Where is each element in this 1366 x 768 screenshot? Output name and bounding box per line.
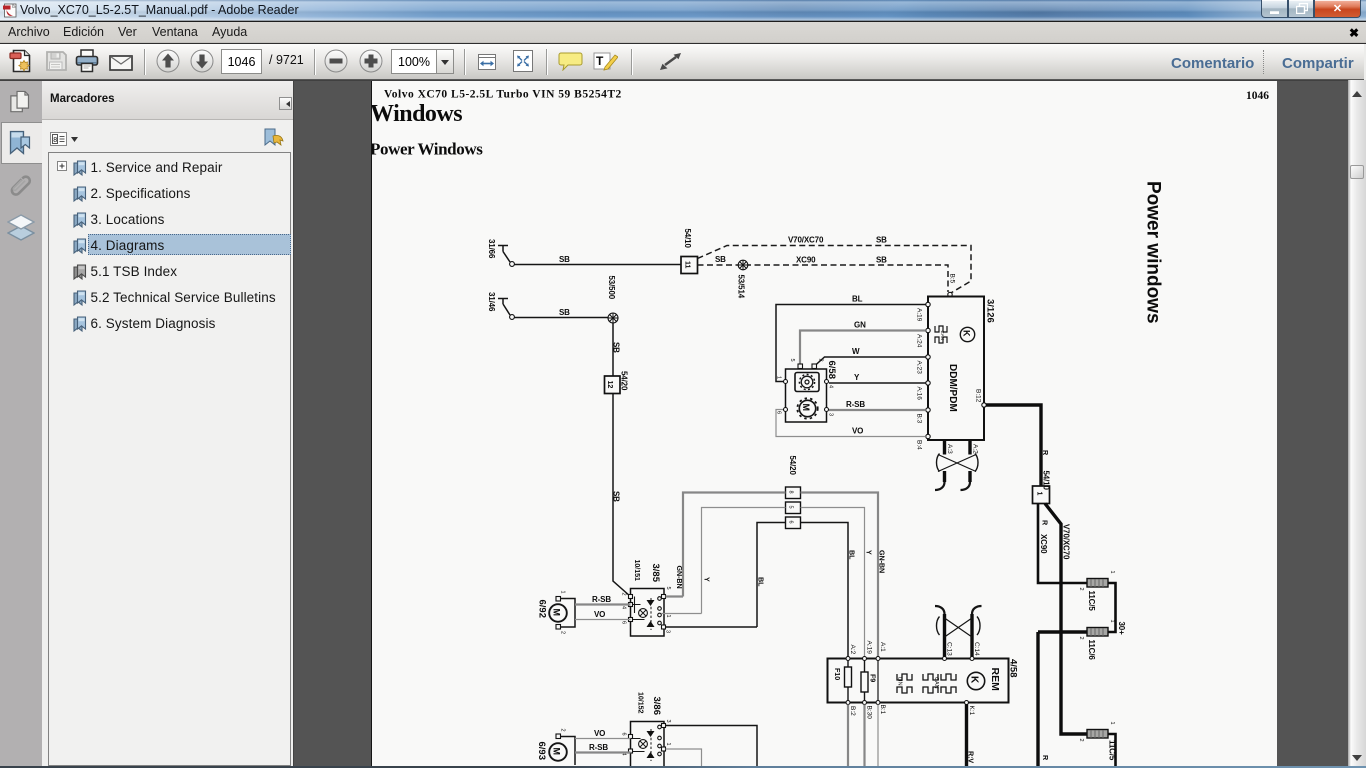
svg-text:B:5: B:5: [949, 274, 956, 284]
svg-text:BL: BL: [757, 577, 766, 587]
svg-text:C:13: C:13: [946, 642, 953, 656]
svg-text:R: R: [1041, 755, 1050, 761]
svg-text:11C/5: 11C/5: [1108, 740, 1117, 761]
svg-text:Power windows: Power windows: [1143, 181, 1164, 324]
svg-text:K: K: [962, 330, 972, 337]
svg-text:B:12: B:12: [975, 389, 982, 403]
svg-text:K:1: K:1: [968, 706, 975, 716]
svg-text:1: 1: [1109, 571, 1115, 574]
svg-text:SB: SB: [612, 491, 621, 502]
svg-text:F10: F10: [833, 668, 842, 680]
svg-text:Y: Y: [865, 550, 874, 555]
svg-text:2: 2: [560, 631, 566, 634]
svg-text:5: 5: [789, 359, 795, 362]
svg-text:12: 12: [606, 381, 615, 389]
svg-text:6: 6: [621, 621, 627, 624]
svg-text:11C/5: 11C/5: [1087, 591, 1096, 612]
svg-text:3: 3: [665, 720, 671, 723]
svg-text:CAN: CAN: [940, 331, 945, 341]
svg-text:VO: VO: [852, 427, 863, 436]
svg-text:1: 1: [665, 743, 671, 746]
svg-text:4/58: 4/58: [1008, 659, 1019, 678]
svg-text:10/152: 10/152: [637, 692, 646, 713]
svg-text:VO: VO: [594, 610, 605, 619]
svg-text:1: 1: [1036, 492, 1045, 496]
svg-text:BL: BL: [848, 550, 857, 560]
svg-text:B:3: B:3: [916, 414, 923, 424]
svg-text:11C/6: 11C/6: [1087, 640, 1096, 661]
svg-text:4: 4: [621, 606, 627, 609]
svg-text:VO: VO: [594, 729, 605, 738]
svg-text:A:1: A:1: [879, 642, 886, 652]
svg-text:LIN: LIN: [897, 677, 903, 686]
svg-text:2: 2: [1078, 739, 1084, 742]
svg-text:GN-BN: GN-BN: [878, 550, 887, 573]
svg-text:6: 6: [776, 411, 782, 414]
svg-text:C:14: C:14: [973, 642, 980, 656]
svg-text:F9: F9: [869, 674, 878, 682]
svg-text:R-SB: R-SB: [846, 400, 865, 409]
svg-text:CAN: CAN: [933, 677, 939, 689]
svg-text:XC90: XC90: [1039, 534, 1048, 554]
svg-text:3/126: 3/126: [985, 299, 996, 323]
svg-text:53/514: 53/514: [737, 275, 746, 299]
svg-text:11: 11: [684, 261, 693, 269]
svg-text:2: 2: [1078, 637, 1084, 640]
svg-text:REM: REM: [989, 668, 1001, 692]
svg-text:A:23: A:23: [916, 361, 923, 375]
svg-text:6/92: 6/92: [537, 600, 548, 619]
svg-text:M: M: [801, 404, 811, 412]
svg-text:V70/XC70: V70/XC70: [788, 236, 824, 245]
svg-text:54/20: 54/20: [788, 456, 797, 476]
svg-text:A:16: A:16: [916, 387, 923, 401]
svg-text:B:4: B:4: [916, 440, 923, 450]
svg-text:6: 6: [788, 521, 794, 524]
svg-text:6/93: 6/93: [536, 742, 547, 761]
svg-text:A:2: A:2: [849, 645, 856, 655]
svg-text:1: 1: [1109, 620, 1115, 623]
svg-text:DDM/PDM: DDM/PDM: [947, 364, 958, 412]
svg-text:Y: Y: [854, 373, 860, 382]
svg-text:54/10: 54/10: [683, 229, 692, 249]
svg-text:SB: SB: [876, 256, 887, 265]
svg-text:GN: GN: [854, 321, 866, 330]
svg-text:B:2: B:2: [849, 706, 856, 716]
svg-text:3: 3: [828, 413, 834, 416]
svg-text:3/85: 3/85: [650, 564, 661, 583]
svg-text:W: W: [852, 347, 860, 356]
svg-text:R: R: [1041, 520, 1050, 526]
svg-text:Power Windows: Power Windows: [372, 140, 483, 159]
svg-text:2: 2: [818, 359, 824, 362]
svg-text:K: K: [969, 676, 980, 684]
svg-text:Windows: Windows: [372, 101, 462, 127]
svg-text:3: 3: [665, 630, 671, 633]
svg-text:6/58: 6/58: [826, 361, 837, 380]
svg-text:2: 2: [1078, 588, 1084, 591]
svg-text:SB: SB: [715, 255, 726, 264]
svg-text:B:1: B:1: [879, 705, 886, 715]
svg-text:R-SB: R-SB: [589, 743, 608, 752]
svg-text:R-SB: R-SB: [592, 595, 611, 604]
svg-text:SB: SB: [876, 236, 887, 245]
svg-text:1046: 1046: [1246, 90, 1269, 102]
svg-text:30+: 30+: [1117, 622, 1126, 636]
svg-text:XC90: XC90: [796, 256, 816, 265]
svg-text:T: T: [596, 54, 604, 68]
svg-text:54/20: 54/20: [620, 371, 629, 391]
svg-text:31/46: 31/46: [487, 292, 496, 312]
svg-text:B:30: B:30: [866, 706, 873, 720]
svg-text:SB: SB: [559, 255, 570, 264]
svg-text:Y: Y: [703, 577, 712, 582]
svg-text:A:19: A:19: [866, 641, 873, 655]
svg-text:R:V: R:V: [967, 751, 976, 763]
svg-text:3/86: 3/86: [651, 697, 662, 716]
svg-text:10/151: 10/151: [633, 560, 642, 581]
svg-text:BL: BL: [852, 295, 863, 304]
svg-text:5: 5: [788, 506, 794, 509]
svg-text:54/10: 54/10: [1042, 471, 1051, 491]
svg-text:1: 1: [560, 591, 566, 594]
svg-text:1: 1: [776, 376, 782, 379]
svg-text:6: 6: [621, 733, 627, 736]
svg-text:GN-BN: GN-BN: [675, 566, 684, 589]
svg-text:A:3: A:3: [946, 444, 953, 454]
svg-text:8: 8: [788, 491, 794, 494]
svg-text:5: 5: [665, 587, 671, 590]
svg-text:Volvo XC70 L5-2.5L Turbo VIN 5: Volvo XC70 L5-2.5L Turbo VIN 59 B5254T2: [384, 89, 622, 101]
svg-text:SB: SB: [559, 308, 570, 317]
svg-text:A:2: A:2: [972, 444, 979, 454]
svg-text:1: 1: [665, 615, 671, 618]
svg-text:2: 2: [560, 729, 566, 732]
svg-text:1: 1: [1109, 722, 1115, 725]
svg-text:V70/XC70: V70/XC70: [1062, 524, 1071, 560]
svg-text:8: 8: [53, 137, 57, 144]
svg-text:4: 4: [828, 385, 834, 388]
svg-text:A:19: A:19: [916, 308, 923, 322]
svg-text:31/66: 31/66: [487, 239, 496, 259]
svg-text:M: M: [552, 748, 562, 756]
svg-text:M: M: [552, 609, 562, 617]
svg-text:SB: SB: [612, 342, 621, 353]
svg-text:53/500: 53/500: [607, 276, 616, 300]
svg-text:A:24: A:24: [916, 334, 923, 348]
svg-text:2: 2: [621, 593, 627, 596]
